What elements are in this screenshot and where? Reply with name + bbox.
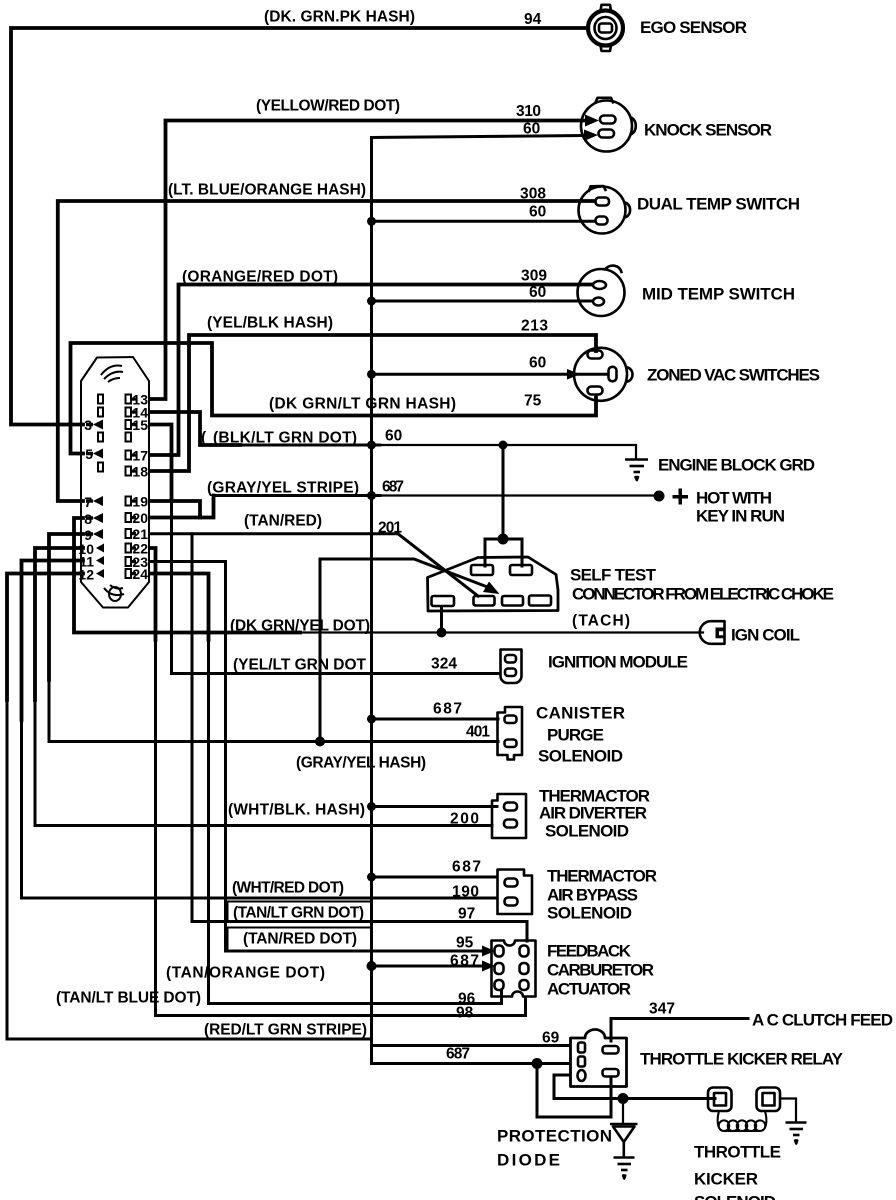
svg-text:SOLENOID: SOLENOID — [545, 822, 629, 841]
svg-text:(TAN/LT BLUE DOT): (TAN/LT BLUE DOT) — [56, 990, 201, 1007]
junction dot diode output — [618, 1093, 629, 1104]
wire 75 (DK GRN/LT GRN HASH) pin5 route to zoned vac bottom — [71, 343, 597, 454]
junction dot 60 at self test drop — [499, 441, 508, 450]
svg-text:94: 94 — [524, 11, 542, 28]
arrow 687 feedback — [482, 961, 495, 972]
svg-text:ZONED VAC SWITCHES: ZONED VAC SWITCHES — [647, 366, 820, 385]
svg-text:201: 201 — [378, 520, 402, 537]
zoned vac switches — [574, 348, 633, 401]
svg-text:(DK GRN/LT GRN HASH): (DK GRN/LT GRN HASH) — [269, 396, 456, 413]
svg-text:IGNITION MODULE: IGNITION MODULE — [548, 653, 688, 672]
cross hot symbol — [673, 489, 689, 505]
svg-text:DIODE: DIODE — [497, 1151, 560, 1170]
svg-text:(WHT/BLK. HASH): (WHT/BLK. HASH) — [228, 802, 365, 819]
junction dot self test stem — [437, 628, 447, 638]
arrow 310 knock — [585, 115, 599, 127]
arrow 60 knock — [584, 130, 598, 142]
svg-text:7: 7 — [84, 494, 92, 510]
junction dot wht/blk — [367, 802, 376, 811]
wire 308 (LT. BLUE/ORANGE HASH) pin7 to dual temp switch — [58, 201, 593, 501]
ground engine block — [625, 460, 648, 481]
svg-text:190: 190 — [452, 884, 479, 901]
svg-text:(TAN/ORANGE DOT): (TAN/ORANGE DOT) — [166, 965, 325, 982]
wire protection diode U path — [537, 1064, 611, 1118]
svg-text:69: 69 — [542, 1030, 560, 1047]
svg-text:(ORANGE/RED DOT): (ORANGE/RED DOT) — [182, 269, 338, 286]
wire 687 relay from bus — [372, 1062, 571, 1065]
svg-text:8: 8 — [84, 511, 92, 527]
arrow self test input — [483, 582, 500, 595]
svg-text:60: 60 — [529, 204, 546, 221]
self test top bracket — [485, 539, 522, 566]
main bus vertical — [370, 138, 373, 1064]
self test connector — [428, 557, 559, 611]
arrow 60 vac — [567, 369, 580, 380]
knock sensor — [581, 98, 636, 152]
svg-text:KEY IN RUN: KEY IN RUN — [696, 507, 785, 526]
svg-text:(TAN/RED DOT): (TAN/RED DOT) — [243, 931, 357, 948]
wire 60 zoned vac from bus — [372, 373, 607, 376]
svg-text:60: 60 — [529, 355, 546, 372]
svg-text:CANISTER: CANISTER — [536, 704, 625, 723]
junction dot 60 dual — [367, 217, 376, 226]
svg-text:HOT WITH: HOT WITH — [696, 489, 772, 508]
junction dot 60 mid — [367, 297, 376, 306]
svg-text:97: 97 — [458, 906, 475, 923]
wire 401 (GRAY/YEL HASH) pin9 to canister — [49, 534, 83, 680]
wire 60 mid temp from bus — [372, 300, 593, 303]
svg-text:KICKER: KICKER — [694, 1170, 758, 1189]
wire diode stem — [622, 1099, 624, 1125]
feedback carburetor actuator — [492, 941, 536, 997]
svg-text:60: 60 — [529, 284, 546, 301]
svg-text:200: 200 — [450, 811, 479, 828]
svg-text:(TAN/LT GRN DOT): (TAN/LT GRN DOT) — [233, 905, 364, 922]
svg-text:60: 60 — [385, 428, 402, 445]
wire 687 (GRAY/YEL STRIPE) pins 19/20 to hot in run — [150, 501, 200, 518]
wire 69 from bus to relay — [372, 1044, 571, 1047]
wire 95 (TAN/RED DOT) to actuator — [226, 950, 485, 953]
arrow 95 — [482, 946, 495, 957]
junction dot self test top — [498, 534, 509, 545]
junction dot 401 at x320 — [315, 737, 325, 747]
svg-text:(LT. BLUE/ORANGE HASH): (LT. BLUE/ORANGE HASH) — [168, 182, 366, 199]
wire self test drop from 60 wire — [502, 445, 505, 539]
junction dot 60 vac — [367, 370, 376, 379]
svg-text:SOLENOID: SOLENOID — [538, 747, 623, 766]
svg-text:(TAN/RED): (TAN/RED) — [244, 513, 322, 530]
EGO sensor — [588, 5, 623, 51]
svg-text:(YELLOW/RED DOT): (YELLOW/RED DOT) — [256, 98, 400, 115]
svg-text:PURGE: PURGE — [547, 726, 604, 745]
junction dot 687 at bus — [367, 491, 376, 500]
wire (RED/LT GRN STRIPE) pin12 down and right — [7, 574, 83, 701]
svg-text:(GRAY/YEL HASH): (GRAY/YEL HASH) — [296, 755, 426, 772]
svg-text:98: 98 — [456, 1005, 474, 1022]
svg-text:CONNECTOR FROM ELECTRIC CHOKE: CONNECTOR FROM ELECTRIC CHOKE — [572, 585, 834, 604]
svg-text:3: 3 — [84, 417, 92, 433]
throttle kicker solenoid coil — [718, 1111, 767, 1131]
ign coil — [700, 621, 725, 644]
svg-text:(GRAY/YEL STRIPE): (GRAY/YEL STRIPE) — [207, 480, 359, 497]
wire 60 knock from bus corner — [372, 136, 585, 138]
wire 687 canister from bus — [372, 718, 499, 721]
wire self test stem — [440, 607, 443, 633]
svg-text:324: 324 — [431, 656, 457, 673]
wire 687 (TAN/ORANGE DOT) bus to actuator — [372, 965, 485, 968]
throttle kicker solenoid left terminal — [708, 1088, 732, 1112]
svg-text:MID TEMP SWITCH: MID TEMP SWITCH — [642, 285, 795, 304]
wire 347 to AC clutch feed — [611, 1019, 748, 1042]
junction dot 687 canister — [367, 715, 376, 724]
svg-text:PROTECTION: PROTECTION — [497, 1127, 612, 1146]
wire self test input branch to arrow — [320, 559, 490, 674]
svg-text:60: 60 — [523, 121, 540, 138]
svg-text:EGO SENSOR: EGO SENSOR — [640, 18, 747, 37]
wire 309 (ORANGE/RED DOT) pin17 to mid temp switch — [150, 285, 592, 456]
pin dashes right column — [131, 398, 136, 576]
svg-text:(TACH): (TACH) — [572, 613, 630, 630]
wire 98 pin22 to actuator — [150, 548, 156, 640]
svg-text:401: 401 — [466, 724, 490, 741]
left pin arrows — [86, 420, 104, 579]
terminal dot hot with key in run — [654, 491, 665, 502]
svg-text:213: 213 — [521, 318, 548, 335]
wire pin23 down to 95 — [150, 562, 226, 952]
wire 201 (TAN/RED) pin21 to self test connector — [150, 534, 478, 596]
svg-text:12: 12 — [78, 567, 94, 583]
svg-text:CARBURETOR: CARBURETOR — [547, 961, 654, 980]
svg-text:75: 75 — [524, 393, 542, 410]
thermactor air bypass solenoid — [498, 870, 533, 915]
svg-text:308: 308 — [520, 186, 546, 203]
wire 60 dual temp from bus — [372, 220, 594, 223]
svg-text:SOLENOID: SOLENOID — [694, 1193, 776, 1200]
svg-text:687: 687 — [450, 953, 479, 970]
ground kicker — [786, 1123, 807, 1144]
wire pin21 branch down to 97 — [191, 534, 194, 922]
svg-text:687: 687 — [433, 701, 462, 718]
svg-text:(WHT/RED DOT): (WHT/RED DOT) — [232, 880, 344, 897]
wire 200 pin10 to diverter — [35, 548, 83, 700]
svg-text:SOLENOID: SOLENOID — [547, 904, 632, 923]
connector pin holes middle-right column — [126, 395, 132, 579]
thermactor air diverter solenoid — [492, 794, 526, 838]
wire 97 (TAN/LT GRN DOT) to feedback actuator top — [192, 922, 527, 942]
svg-text:IGN COIL: IGN COIL — [731, 626, 800, 645]
svg-text:THROTTLE: THROTTLE — [694, 1143, 781, 1162]
ECU connector body — [81, 357, 149, 608]
svg-text:(: ( — [201, 430, 207, 447]
svg-text:5: 5 — [85, 446, 93, 462]
svg-text:310: 310 — [516, 103, 541, 120]
wire (WHT/BLK. HASH) bus to diverter top — [372, 805, 498, 808]
svg-text:A C CLUTCH FEED: A C CLUTCH FEED — [752, 1011, 893, 1030]
svg-text:ACTUATOR: ACTUATOR — [547, 980, 631, 999]
pin number labels left — [78, 417, 94, 583]
svg-text:THROTTLE KICKER RELAY: THROTTLE KICKER RELAY — [640, 1050, 844, 1069]
wire 94 (DK. GRN.PK HASH) pin3 to EGO sensor — [11, 28, 587, 425]
pin number labels right — [132, 392, 148, 583]
svg-text:DUAL TEMP SWITCH: DUAL TEMP SWITCH — [637, 195, 800, 214]
wire 60 (BLK/LT GRN DOT) pin14 to engine block ground — [150, 412, 240, 445]
wire 190 (WHT/RED DOT) pin11 to bypass — [22, 561, 84, 721]
junction dot 687 feedback — [367, 961, 377, 971]
wire x320 segment to 401 — [319, 674, 322, 742]
junction dot 687 bypass — [367, 873, 376, 882]
svg-text:(RED/LT GRN STRIPE): (RED/LT GRN STRIPE) — [204, 1022, 367, 1039]
ignition module — [501, 650, 522, 684]
wire 213 (YEL/BLK HASH) pin18 to zoned vac top — [150, 335, 596, 471]
junction dot 687 diode branch — [532, 1058, 543, 1069]
svg-text:(DK GRN/YEL DOT): (DK GRN/YEL DOT) — [230, 618, 370, 635]
connector pin holes middle-left column — [98, 395, 103, 472]
svg-text:95: 95 — [456, 935, 474, 952]
wire 324 (YEL/LT GRN DOT) pin15 to ignition module — [150, 425, 172, 501]
svg-text:SELF TEST: SELF TEST — [570, 566, 657, 585]
svg-text:KNOCK SENSOR: KNOCK SENSOR — [644, 121, 772, 140]
svg-text:309: 309 — [521, 268, 547, 285]
svg-text:(DK. GRN.PK HASH): (DK. GRN.PK HASH) — [264, 9, 415, 26]
svg-text:FEEDBACK: FEEDBACK — [547, 942, 632, 961]
wire 687 bypass from bus — [372, 876, 498, 879]
ground below diode — [614, 1158, 635, 1179]
wire (DK GRN/YEL DOT) pin8 to TACH ign coil — [74, 518, 300, 633]
svg-text:(YEL/LT GRN DOT: (YEL/LT GRN DOT — [233, 657, 367, 674]
svg-text:(YEL/BLK HASH): (YEL/BLK HASH) — [207, 315, 333, 332]
protection diode — [610, 1124, 638, 1157]
svg-text:(BLK/LT GRN DOT): (BLK/LT GRN DOT) — [213, 430, 357, 447]
svg-text:AIR BYPASS: AIR BYPASS — [547, 886, 638, 905]
svg-text:687: 687 — [382, 479, 404, 496]
wire relay inner L to output — [554, 1075, 715, 1099]
svg-text:ENGINE BLOCK GRD: ENGINE BLOCK GRD — [658, 456, 815, 475]
svg-text:THERMACTOR: THERMACTOR — [547, 867, 657, 886]
svg-text:687: 687 — [452, 859, 481, 876]
svg-text:687: 687 — [446, 1046, 470, 1063]
label box TAN/RED DOT — [228, 928, 372, 952]
label box TAN/LT GRN DOT — [228, 902, 372, 922]
dual temp switch — [579, 186, 631, 234]
wire 96 (TAN/LT BLUE DOT) pin24 to actuator — [150, 574, 209, 641]
svg-text:AIR DIVERTER: AIR DIVERTER — [539, 804, 647, 823]
svg-text:347: 347 — [649, 1001, 675, 1018]
throttle kicker solenoid right terminal — [757, 1088, 781, 1112]
mid temp switch — [578, 266, 625, 316]
throttle kicker relay — [571, 1030, 627, 1087]
junction dot 60 at bus — [367, 441, 376, 450]
wire kicker solenoid to ground — [780, 1099, 796, 1123]
canister purge solenoid — [498, 707, 523, 760]
wire 310 (YELLOW/RED DOT) pin13 to knock sensor — [150, 121, 584, 400]
